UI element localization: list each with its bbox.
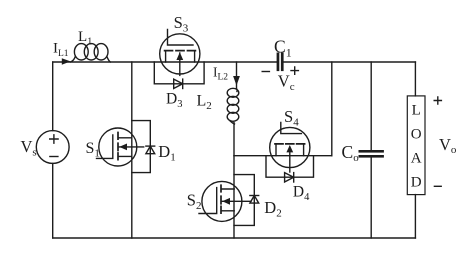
svg-text:L: L <box>412 103 421 119</box>
wire D4 branch <box>266 156 314 178</box>
wire Co branch bottom <box>370 157 372 238</box>
plus sign at load <box>434 97 441 104</box>
diode D2 <box>250 196 259 204</box>
wire load branch bottom <box>414 195 416 238</box>
minus sign at C1 <box>262 71 269 73</box>
mosfet S3 <box>160 30 200 76</box>
wire top rail left of C1 <box>53 61 277 63</box>
plus sign in Vs <box>50 135 58 143</box>
diode D4 <box>285 173 294 182</box>
load box <box>407 96 425 195</box>
S4 body arrow head <box>286 145 293 152</box>
wire top rail right of C1 <box>284 61 416 63</box>
voltage source Vs <box>36 131 69 164</box>
svg-text:O: O <box>411 127 422 143</box>
minus sign in Vs <box>50 156 58 158</box>
capacitor Co <box>359 150 384 158</box>
wire D1 branch <box>132 121 151 173</box>
wire left drop to source <box>52 62 54 131</box>
diode D3 <box>174 79 183 88</box>
minus sign at load <box>434 185 441 187</box>
inductor L2 <box>227 88 239 124</box>
wire D2 branch <box>234 175 254 226</box>
S2 body arrow head <box>222 198 230 205</box>
inductor L1 <box>71 44 111 62</box>
svg-text:A: A <box>411 151 422 167</box>
wire load branch top <box>414 62 416 96</box>
wire below source <box>52 163 54 238</box>
mosfet S1 <box>97 128 144 166</box>
mosfet S4 <box>270 123 310 173</box>
wire L2 upper vertical <box>236 62 238 89</box>
wire S4 rail from L2 node <box>234 155 332 157</box>
wire Co branch top <box>370 62 372 150</box>
svg-text:D: D <box>411 175 422 191</box>
plus sign at C1 <box>291 67 298 74</box>
capacitor C1 <box>277 53 284 72</box>
S3 body arrow head <box>176 52 183 60</box>
arrow current IL2 <box>233 76 240 86</box>
wire riser S4 to top rail <box>331 62 333 156</box>
mosfet S2 <box>199 181 251 221</box>
arrow current IL1 <box>62 58 71 64</box>
wire S1 branch vertical <box>131 62 133 238</box>
diode D1 <box>146 146 155 154</box>
wire bottom rail <box>53 237 416 239</box>
S1 body arrow head <box>119 144 127 151</box>
wire D3 branch <box>154 62 204 84</box>
wire L2 lower vertical to S2 and bottom rail <box>233 123 235 239</box>
